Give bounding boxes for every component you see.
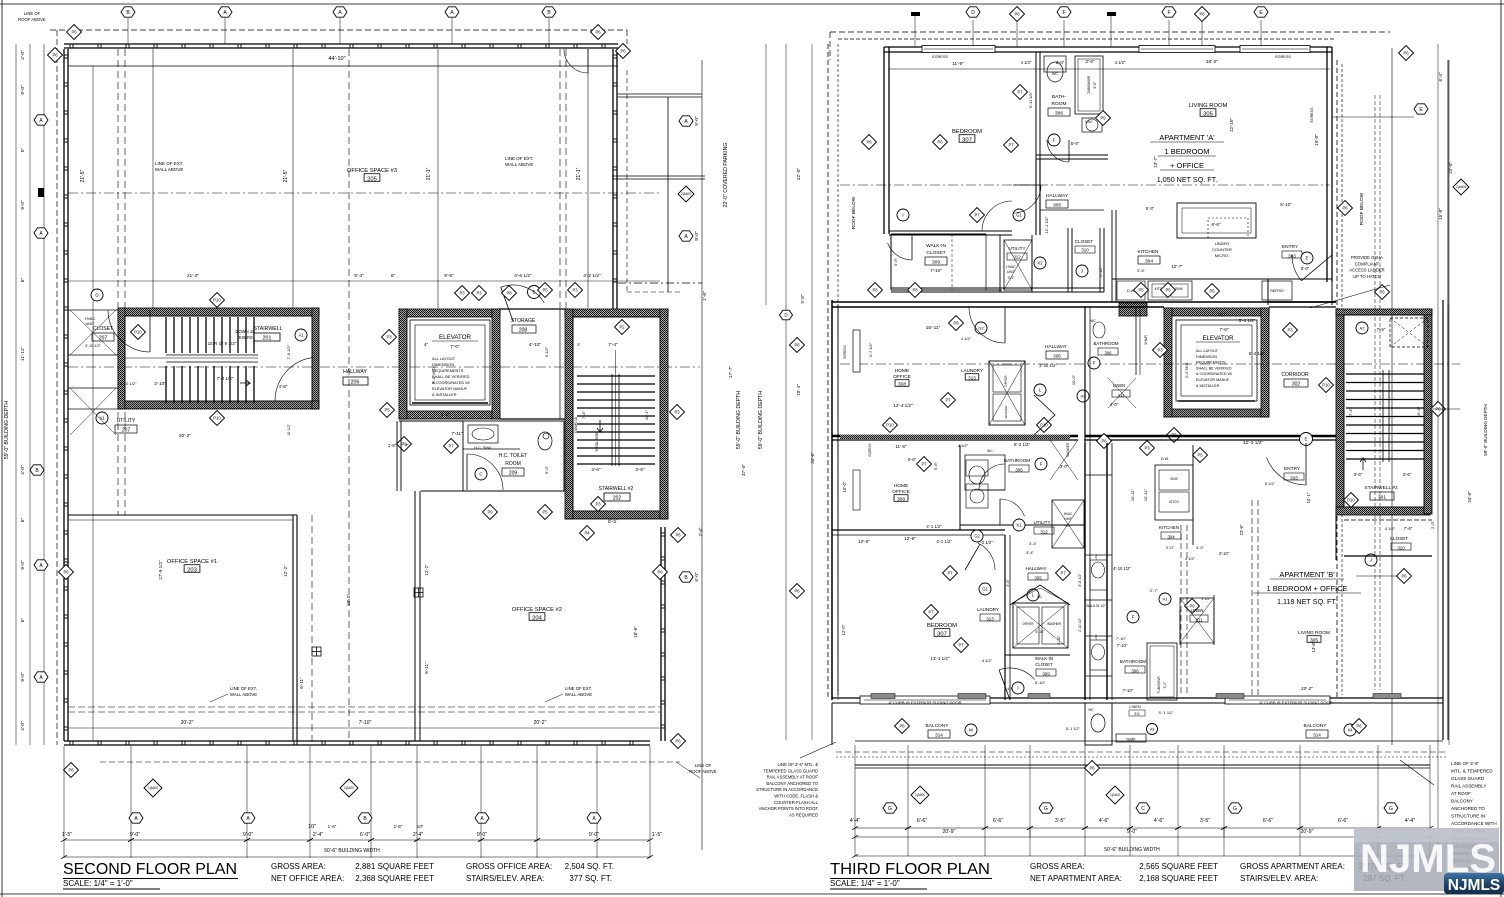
svg-text:CLOSET: CLOSET — [1035, 662, 1053, 667]
svg-text:SINK: SINK — [1175, 287, 1183, 291]
svg-text:7'-0": 7'-0" — [1219, 327, 1229, 332]
svg-text:REFRIG: REFRIG — [1270, 289, 1284, 293]
svg-text:10'-0": 10'-0" — [1071, 374, 1076, 385]
svg-text:P7: P7 — [958, 643, 964, 648]
svg-text:377 SQ. FT.: 377 SQ. FT. — [569, 874, 612, 883]
svg-text:3'-10": 3'-10" — [1219, 551, 1230, 556]
svg-text:306: 306 — [1015, 468, 1023, 473]
svg-text:LINE OF 3'-6" MTL. &: LINE OF 3'-6" MTL. & — [778, 762, 819, 767]
svg-text:BATHROOM: BATHROOM — [1120, 659, 1146, 664]
svg-text:WALK-IN: WALK-IN — [1035, 656, 1053, 661]
svg-text:203: 203 — [187, 568, 197, 574]
svg-text:1|A400: 1|A400 — [915, 793, 925, 797]
svg-text:WASHER: WASHER — [1047, 622, 1062, 626]
svg-text:OFFICE SPACE #3: OFFICE SPACE #3 — [347, 168, 397, 174]
svg-text:7'-10": 7'-10" — [1116, 636, 1127, 641]
svg-text:NET APARTMENT AREA:: NET APARTMENT AREA: — [1030, 874, 1122, 883]
svg-text:305: 305 — [1053, 354, 1061, 359]
svg-text:12'-2": 12'-2" — [424, 564, 429, 576]
svg-text:6'-0": 6'-0" — [694, 572, 699, 581]
svg-text:3'-6": 3'-6" — [591, 467, 601, 472]
svg-text:OFFICE SPACE #2: OFFICE SPACE #2 — [512, 607, 562, 613]
svg-text:WALL ABOVE: WALL ABOVE — [230, 692, 257, 697]
svg-text:H.C. SINK: H.C. SINK — [474, 446, 492, 450]
svg-text:WALL ABOVE: WALL ABOVE — [505, 162, 533, 167]
svg-text:OFFICE SPACE #1: OFFICE SPACE #1 — [167, 559, 217, 565]
svg-text:EGRESS: EGRESS — [843, 345, 847, 358]
svg-text:BEDROOM: BEDROOM — [952, 129, 982, 135]
svg-text:HVAC: HVAC — [85, 317, 96, 321]
svg-text:P5: P5 — [1197, 453, 1203, 458]
svg-text:1|A400: 1|A400 — [344, 786, 354, 790]
svg-text:WC: WC — [1090, 319, 1096, 323]
svg-text:DOWN 18: DOWN 18 — [235, 329, 255, 334]
svg-text:LAV.: LAV. — [1085, 120, 1092, 124]
svg-text:12'-0": 12'-0" — [841, 624, 846, 635]
svg-text:4" CURB @ EXTERIOR SLIDING DOO: 4" CURB @ EXTERIOR SLIDING DOOR — [1259, 700, 1332, 705]
svg-text:4'-2 1/2": 4'-2 1/2" — [583, 273, 601, 279]
svg-text:SINK: SINK — [1170, 477, 1178, 481]
svg-text:F: F — [1040, 462, 1043, 467]
svg-text:209: 209 — [509, 471, 518, 477]
svg-text:4'-10": 4'-10" — [529, 342, 542, 348]
svg-text:16'-4": 16'-4" — [1416, 406, 1421, 417]
svg-text:5'-0": 5'-0" — [1163, 681, 1167, 689]
svg-text:J: J — [1081, 269, 1083, 274]
svg-text:6'-6": 6'-6" — [917, 818, 927, 824]
svg-text:2'-7": 2'-7" — [1182, 597, 1190, 601]
svg-text:59'-0" BUILDING DEPTH: 59'-0" BUILDING DEPTH — [4, 401, 10, 459]
svg-text:DIMENSION: DIMENSION — [1196, 355, 1217, 359]
svg-text:5'- 1 1/2": 5'- 1 1/2" — [1159, 711, 1175, 715]
svg-text:9'-5": 9'-5" — [444, 273, 454, 279]
svg-text:BALCONY: BALCONY — [1451, 799, 1473, 804]
svg-text:313: 313 — [968, 375, 976, 380]
svg-text:CLOSET: CLOSET — [1390, 536, 1409, 541]
svg-text:308: 308 — [898, 382, 906, 388]
svg-text:M: M — [969, 728, 973, 733]
svg-text:P6: P6 — [675, 739, 681, 744]
svg-text:P9: P9 — [1100, 116, 1106, 121]
svg-text:TUB/SHWR: TUB/SHWR — [1087, 75, 1091, 94]
svg-text:7'-4": 7'-4" — [608, 342, 618, 348]
svg-text:4'-6": 4'-6" — [1099, 818, 1109, 824]
svg-text:P7: P7 — [974, 213, 980, 218]
svg-text:BALCONY: BALCONY — [1304, 723, 1328, 729]
svg-text:WITH CODE, FLASH &: WITH CODE, FLASH & — [774, 794, 818, 799]
svg-text:302: 302 — [1292, 382, 1301, 388]
svg-text:2'-4": 2'-4" — [413, 832, 423, 838]
svg-text:P7: P7 — [921, 462, 927, 467]
svg-text:307: 307 — [937, 632, 947, 638]
svg-text:6'-6": 6'-6" — [993, 818, 1003, 824]
svg-text:P10: P10 — [213, 416, 221, 421]
svg-text:A2: A2 — [1360, 325, 1366, 330]
svg-text:P3: P3 — [1287, 328, 1293, 333]
svg-text:3'-5": 3'-5" — [441, 412, 450, 417]
svg-text:7'-10": 7'-10" — [359, 720, 372, 726]
svg-text:2,565 SQUARE FEET: 2,565 SQUARE FEET — [1139, 862, 1218, 871]
svg-text:SHALL BE VERIFIED: SHALL BE VERIFIED — [1196, 366, 1232, 370]
svg-text:F: F — [1167, 10, 1170, 16]
svg-text:P6: P6 — [1403, 51, 1409, 56]
svg-text:KITCHEN: KITCHEN — [1159, 525, 1179, 530]
svg-text:P10: P10 — [134, 330, 142, 335]
svg-text:207: 207 — [99, 336, 108, 342]
svg-text:1,118 NET SQ. FT.: 1,118 NET SQ. FT. — [1277, 597, 1337, 606]
svg-text:301: 301 — [1378, 495, 1386, 501]
svg-text:1'-6": 1'-6" — [388, 443, 397, 448]
svg-text:P10: P10 — [1347, 498, 1355, 503]
svg-text:WALL ABOVE: WALL ABOVE — [155, 167, 183, 172]
svg-text:P8: P8 — [506, 291, 512, 296]
svg-text:UNIT: UNIT — [86, 322, 96, 326]
svg-text:P6: P6 — [1342, 206, 1348, 211]
svg-text:305: 305 — [1203, 112, 1213, 118]
svg-text:4 1/2": 4 1/2" — [958, 443, 969, 448]
svg-text:6": 6" — [20, 278, 26, 283]
svg-text:P5: P5 — [1165, 288, 1171, 293]
svg-text:P6: P6 — [63, 570, 69, 575]
svg-text:G: G — [1389, 806, 1393, 812]
svg-text:APARTMENT 'B': APARTMENT 'B' — [1279, 570, 1335, 579]
svg-text:306: 306 — [1131, 669, 1139, 674]
svg-text:3'-5": 3'-5" — [1137, 268, 1146, 273]
svg-text:314: 314 — [935, 733, 943, 738]
svg-text:ESRESS: ESRESS — [868, 444, 872, 457]
svg-text:9'-0": 9'-0" — [20, 200, 26, 210]
svg-text:7'-4": 7'-4" — [1348, 407, 1353, 416]
svg-text:21'-5": 21'-5" — [80, 169, 86, 182]
svg-text:1'-5": 1'-5" — [652, 832, 662, 838]
svg-text:204: 204 — [532, 616, 542, 622]
svg-text:10 1/2": 10 1/2" — [287, 423, 291, 436]
svg-text:5'-10": 5'-10" — [1035, 680, 1046, 685]
svg-text:27'-9 1/2": 27'-9 1/2" — [158, 560, 163, 580]
svg-text:LINEN: LINEN — [1129, 705, 1140, 709]
svg-text:UNDER: UNDER — [1215, 241, 1229, 246]
svg-text:1'-6": 1'-6" — [394, 824, 403, 829]
svg-text:BALCONY: BALCONY — [926, 723, 950, 729]
svg-text:G1: G1 — [1016, 213, 1022, 218]
svg-text:18'-2": 18'-2" — [1206, 59, 1219, 65]
svg-text:P8: P8 — [912, 288, 918, 293]
svg-text:4'-0": 4'-0" — [20, 721, 26, 731]
svg-text:DOWN 18: DOWN 18 — [574, 417, 578, 433]
svg-text:309: 309 — [1042, 672, 1050, 677]
svg-text:5'-6": 5'-6" — [908, 457, 917, 462]
svg-text:5'-10": 5'-10" — [1280, 202, 1292, 207]
svg-text:BEDROOM: BEDROOM — [927, 623, 957, 629]
svg-text:AT ROOF: AT ROOF — [1451, 791, 1471, 796]
svg-text:7'-10": 7'-10" — [1123, 688, 1134, 693]
svg-text:314: 314 — [1313, 733, 1321, 738]
svg-text:STAIRWELL: STAIRWELL — [254, 326, 283, 332]
svg-text:P10: P10 — [213, 298, 221, 303]
svg-text:LINE OF EXT.: LINE OF EXT. — [230, 686, 257, 691]
svg-text:5'-8": 5'-8" — [800, 294, 805, 303]
svg-text:2,168 SQUARE FEET: 2,168 SQUARE FEET — [1139, 874, 1218, 883]
svg-text:6 1/2": 6 1/2" — [544, 346, 549, 357]
svg-text:ANCHOR POINTS INTO ROOF: ANCHOR POINTS INTO ROOF — [759, 806, 819, 811]
svg-text:SCALE: 1/4" = 1'-0": SCALE: 1/4" = 1'-0" — [63, 879, 133, 888]
svg-text:21'-1": 21'-1" — [426, 167, 432, 180]
svg-text:10'-4": 10'-4" — [796, 384, 801, 396]
svg-text:7'-11": 7'-11" — [451, 431, 463, 436]
svg-text:10'-0": 10'-0" — [842, 481, 847, 492]
svg-text:CORRIDOR: CORRIDOR — [1281, 372, 1309, 378]
svg-text:BATHROOM: BATHROOM — [1093, 341, 1118, 346]
svg-text:UTILITY: UTILITY — [117, 418, 136, 424]
svg-text:1|A400: 1|A400 — [148, 786, 158, 790]
svg-text:M: M — [1348, 728, 1352, 733]
svg-text:CLOSET: CLOSET — [1075, 239, 1094, 244]
svg-text:9'-0": 9'-0" — [243, 832, 253, 838]
svg-text:3'-10 1/2": 3'-10 1/2" — [85, 344, 102, 348]
svg-text:313: 313 — [986, 617, 994, 622]
svg-text:5'-0": 5'-0" — [1093, 81, 1097, 89]
svg-text:UP TO HATCH: UP TO HATCH — [1353, 274, 1381, 279]
svg-text:8'-5": 8'-5" — [608, 519, 618, 525]
svg-text:LINE OF: LINE OF — [695, 763, 712, 768]
svg-text:KITCHEN: KITCHEN — [1137, 249, 1159, 255]
svg-text:15'-11": 15'-11" — [926, 325, 941, 331]
svg-text:P6: P6 — [937, 140, 943, 145]
svg-text:2'-7": 2'-7" — [1150, 588, 1159, 593]
svg-text:ELEVATOR MANUF.: ELEVATOR MANUF. — [432, 386, 468, 391]
svg-text:RISERS: RISERS — [237, 335, 253, 340]
svg-text:D.W.: D.W. — [1161, 457, 1169, 461]
svg-text:306: 306 — [1055, 111, 1063, 117]
svg-text:4 1/2": 4 1/2" — [1385, 526, 1396, 531]
svg-text:LINEN: LINEN — [1191, 608, 1204, 613]
svg-text:22'-0" COVERED PARKING: 22'-0" COVERED PARKING — [723, 143, 729, 208]
svg-text:7'-10": 7'-10" — [1117, 643, 1128, 648]
svg-text:34'-0": 34'-0" — [1467, 491, 1472, 503]
svg-text:F: F — [1132, 615, 1135, 620]
svg-text:P6: P6 — [1379, 290, 1385, 295]
svg-text:E: E — [1305, 256, 1308, 261]
svg-text:12'-3 1/2": 12'-3 1/2" — [1243, 440, 1264, 446]
svg-text:STRUCTURE IN ACCORDANCE: STRUCTURE IN ACCORDANCE — [756, 787, 818, 792]
svg-text:20'-9": 20'-9" — [943, 829, 956, 835]
svg-text:SECOND FLOOR PLAN: SECOND FLOOR PLAN — [63, 861, 237, 878]
svg-text:STAIRWELL #2: STAIRWELL #2 — [599, 486, 634, 492]
svg-text:P5: P5 — [542, 510, 548, 515]
svg-text:6'-0": 6'-0" — [544, 465, 549, 474]
svg-text:HALLWAY: HALLWAY — [1046, 193, 1069, 199]
svg-text:1'-5": 1'-5" — [62, 832, 72, 838]
svg-text:F: F — [1062, 10, 1065, 16]
svg-text:4 1/2": 4 1/2" — [1115, 60, 1126, 65]
svg-text:59'-0" BUILDING DEPTH: 59'-0" BUILDING DEPTH — [758, 391, 764, 449]
svg-text:6'-8 1/2": 6'-8 1/2" — [1078, 573, 1082, 587]
svg-text:4 1/2": 4 1/2" — [982, 658, 993, 663]
svg-text:P5: P5 — [384, 408, 390, 413]
svg-text:3'-6": 3'-6" — [1006, 579, 1010, 587]
svg-text:3'-2": 3'-2" — [1008, 276, 1016, 280]
svg-text:6'-6": 6'-6" — [1338, 818, 1348, 824]
svg-text:5'-6": 5'-6" — [1071, 141, 1080, 146]
svg-text:WALK-IN 1/2": WALK-IN 1/2" — [1086, 604, 1106, 608]
svg-text:18'-6": 18'-6" — [633, 626, 638, 638]
svg-text:P7: P7 — [945, 398, 951, 403]
svg-text:P10: P10 — [1322, 383, 1330, 388]
svg-text:H.C. TOILET: H.C. TOILET — [499, 453, 528, 459]
svg-text:307: 307 — [962, 138, 972, 144]
svg-text:3'-10 1/2": 3'-10 1/2" — [1039, 363, 1057, 368]
svg-text:20'-9": 20'-9" — [1301, 829, 1314, 835]
svg-text:305: 305 — [1034, 576, 1042, 581]
svg-text:P9: P9 — [487, 510, 493, 515]
svg-text:5'-6": 5'-6" — [893, 257, 898, 266]
svg-text:201: 201 — [263, 336, 272, 342]
svg-text:9'-0": 9'-0" — [1127, 829, 1137, 835]
svg-text:F: F — [1093, 361, 1096, 366]
svg-text:2'-0": 2'-0" — [20, 50, 26, 60]
svg-text:6'-11": 6'-11" — [299, 677, 304, 689]
svg-text:305: 305 — [1053, 203, 1061, 209]
svg-text:P5: P5 — [1138, 288, 1144, 293]
svg-text:P7: P7 — [1008, 143, 1014, 148]
svg-text:P10: P10 — [886, 423, 894, 428]
svg-text:9'-0": 9'-0" — [694, 116, 700, 126]
svg-text:BATH-: BATH- — [1052, 94, 1066, 100]
svg-text:10": 10" — [308, 824, 316, 830]
svg-text:12'-9": 12'-9" — [858, 539, 870, 544]
svg-text:303: 303 — [1290, 476, 1298, 481]
svg-text:H3: H3 — [1150, 727, 1155, 731]
svg-text:PROVIDE OSHA: PROVIDE OSHA — [1351, 255, 1383, 260]
svg-text:COUNTER: COUNTER — [1212, 247, 1232, 252]
svg-text:STAIRS/ELEV. AREA:: STAIRS/ELEV. AREA: — [466, 874, 544, 883]
svg-text:ANCHORED TO: ANCHORED TO — [1451, 806, 1485, 811]
svg-text:LAUNDRY: LAUNDRY — [977, 607, 999, 612]
svg-text:P6: P6 — [620, 49, 626, 54]
svg-text:2'-4": 2'-4" — [698, 527, 703, 536]
svg-text:2|A400: 2|A400 — [1456, 185, 1466, 189]
svg-text:STRUCTURE IN: STRUCTURE IN — [1451, 814, 1485, 819]
svg-text:ROOM: ROOM — [505, 461, 521, 467]
svg-text:P6: P6 — [1401, 574, 1407, 579]
svg-text:2'-10 1/2": 2'-10 1/2" — [1078, 617, 1082, 632]
svg-text:5'-4 1/2": 5'-4 1/2" — [1239, 318, 1256, 323]
svg-text:5'-4 1/2": 5'-4 1/2" — [1249, 351, 1266, 356]
svg-text:GROSS AREA:: GROSS AREA: — [1030, 862, 1085, 871]
svg-text:P3: P3 — [595, 502, 601, 507]
svg-text:P6: P6 — [794, 589, 800, 594]
svg-text:20'-2": 20'-2" — [534, 720, 547, 726]
svg-text:& INSTALLER: & INSTALLER — [1196, 384, 1220, 388]
svg-text:7": 7" — [405, 443, 409, 448]
svg-text:TUB/SHWR: TUB/SHWR — [1157, 676, 1161, 694]
svg-text:304: 304 — [1167, 535, 1175, 540]
svg-text:2'-10": 2'-10" — [1098, 266, 1103, 277]
svg-text:304: 304 — [1145, 259, 1153, 265]
svg-text:P7: P7 — [928, 610, 934, 615]
svg-text:9'-0": 9'-0" — [20, 85, 26, 95]
svg-text:22'-0": 22'-0" — [796, 168, 802, 181]
svg-text:1 BEDROOM: 1 BEDROOM — [1164, 147, 1209, 156]
svg-text:10'-11": 10'-11" — [1130, 488, 1135, 501]
svg-text:2|A400: 2|A400 — [681, 192, 691, 196]
svg-text:P6: P6 — [52, 53, 58, 58]
svg-text:P6: P6 — [1356, 724, 1362, 729]
svg-text:HALLWAY: HALLWAY — [1025, 566, 1046, 571]
svg-text:202: 202 — [613, 496, 622, 502]
svg-text:4'-4": 4'-4" — [1405, 818, 1415, 824]
svg-text:MICRO.: MICRO. — [1215, 253, 1229, 258]
svg-text:P3: P3 — [476, 291, 482, 296]
svg-text:& INSTALLER: & INSTALLER — [432, 392, 457, 397]
svg-text:ROOF ABOVE: ROOF ABOVE — [689, 769, 717, 774]
svg-text:P8: P8 — [953, 321, 959, 326]
svg-text:WASHER: WASHER — [1004, 405, 1008, 419]
svg-text:12'-10": 12'-10" — [1229, 118, 1234, 132]
svg-text:I: I — [902, 213, 903, 218]
svg-text:P5: P5 — [1209, 289, 1215, 294]
svg-text:4'-1 1/2": 4'-1 1/2" — [936, 539, 952, 544]
svg-text:LAUNDRY: LAUNDRY — [961, 368, 983, 373]
svg-text:GROSS AREA:: GROSS AREA: — [271, 862, 326, 871]
svg-text:50'-6" BUILDING WIDTH: 50'-6" BUILDING WIDTH — [1104, 847, 1160, 853]
svg-text:3'-0": 3'-0" — [1060, 464, 1069, 469]
svg-text:OFFICE: OFFICE — [893, 374, 911, 380]
svg-text:12'-4 1/2": 12'-4 1/2" — [893, 403, 913, 408]
svg-text:GROSS APARTMENT AREA:: GROSS APARTMENT AREA: — [1240, 862, 1345, 871]
svg-text:15 R @ 9 1/2": 15 R @ 9 1/2" — [208, 341, 237, 346]
svg-text:WC: WC — [1052, 72, 1058, 76]
svg-text:5 1/2": 5 1/2" — [1265, 481, 1276, 486]
svg-text:9'-0": 9'-0" — [20, 672, 26, 682]
svg-text:310: 310 — [1397, 546, 1405, 551]
svg-text:& COORDINATED W/: & COORDINATED W/ — [1196, 372, 1233, 376]
svg-text:3'-7 1/2": 3'-7 1/2" — [868, 342, 873, 357]
svg-text:WALL ABOVE: WALL ABOVE — [565, 692, 592, 697]
svg-text:34'-0": 34'-0" — [810, 452, 815, 464]
svg-text:4'-0": 4'-0" — [20, 465, 26, 475]
svg-text:207: 207 — [122, 428, 131, 434]
svg-text:ACCORDANCE WITH: ACCORDANCE WITH — [1451, 821, 1497, 826]
svg-text:4'-6 1/2": 4'-6 1/2" — [514, 273, 532, 279]
svg-text:G: G — [888, 806, 892, 812]
svg-text:309: 309 — [932, 260, 940, 266]
svg-text:UNIT: UNIT — [1007, 270, 1015, 274]
svg-text:4 1/2": 4 1/2" — [1021, 60, 1032, 65]
svg-text:GROSS OFFICE AREA:: GROSS OFFICE AREA: — [466, 862, 552, 871]
svg-text:THIRD FLOOR PLAN: THIRD FLOOR PLAN — [830, 861, 990, 878]
svg-text:P6: P6 — [675, 533, 681, 538]
svg-text:4 1/2": 4 1/2" — [1201, 597, 1211, 601]
svg-text:BALCONY ANCHORED TO: BALCONY ANCHORED TO — [766, 781, 818, 786]
svg-text:UTILITY: UTILITY — [1033, 520, 1050, 525]
svg-text:P6: P6 — [595, 30, 601, 35]
svg-text:1 BEDROOM + OFFICE: 1 BEDROOM + OFFICE — [1266, 584, 1347, 593]
svg-text:P4: P4 — [584, 531, 590, 536]
svg-text:H1: H1 — [1162, 596, 1168, 601]
svg-text:3'-6": 3'-6" — [1403, 472, 1412, 477]
svg-text:2,368 SQUARE FEET: 2,368 SQUARE FEET — [355, 874, 434, 883]
svg-text:HVAC: HVAC — [1006, 265, 1016, 269]
svg-text:20'-2": 20'-2" — [181, 720, 194, 726]
svg-text:ROOF BELOW: ROOF BELOW — [1359, 192, 1365, 225]
svg-text:SHALL BE VERIFIED: SHALL BE VERIFIED — [432, 374, 470, 379]
svg-text:9'-0": 9'-0" — [477, 832, 487, 838]
svg-text:P6: P6 — [1101, 439, 1107, 444]
svg-text:FD.: FD. — [1037, 595, 1042, 599]
svg-text:P7: P7 — [448, 444, 454, 449]
svg-text:10": 10" — [417, 824, 424, 829]
